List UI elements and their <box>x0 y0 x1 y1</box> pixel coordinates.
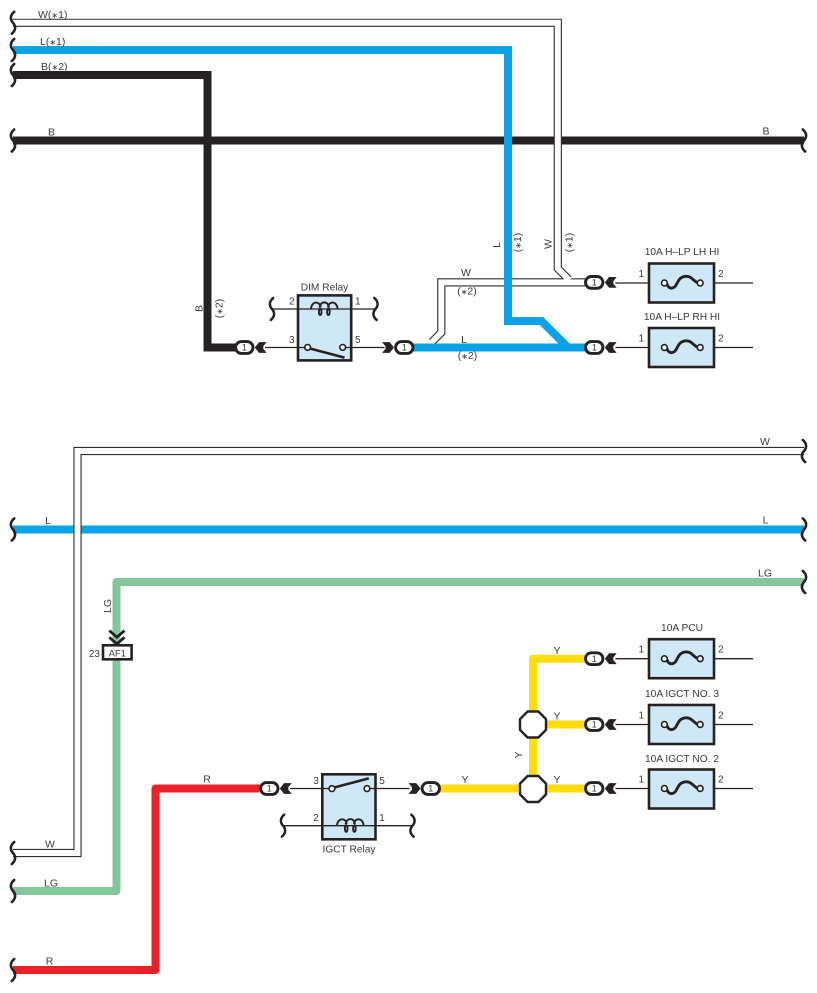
fuse 10A IGCT NO.2 wires <box>616 788 754 790</box>
svg-text:2: 2 <box>718 711 724 722</box>
svg-text:IGCT Relay: IGCT Relay <box>322 845 376 856</box>
IGCT relay switch blade <box>333 778 369 787</box>
svg-text:5: 5 <box>355 335 361 346</box>
svg-text:B(∗2): B(∗2) <box>41 61 68 73</box>
svg-text:R: R <box>46 956 54 968</box>
svg-text:10A IGCT NO. 2: 10A IGCT NO. 2 <box>645 754 719 765</box>
svg-text:LG: LG <box>102 599 114 613</box>
fuse 10A H-LP LH HI wires <box>616 282 754 284</box>
DIM relay switch contact left <box>305 345 311 351</box>
wire W white fill <box>13 451 804 853</box>
connector oval 1 at fuse IGCT NO.2 <box>586 783 603 795</box>
continuation squiggle B left <box>11 130 15 152</box>
wire Y junction J1 to oval <box>544 721 585 729</box>
svg-text:L(∗1): L(∗1) <box>40 36 65 48</box>
IGCT relay coil squiggle right <box>410 815 414 837</box>
continuation squiggle LG right <box>802 571 806 593</box>
fuse 10A PCU box <box>649 639 714 678</box>
fuse 10A H-LP RH HI element <box>667 341 698 353</box>
DIM relay switch wire left <box>265 347 305 349</box>
fuse 10A H-LP LH HI element <box>667 276 698 288</box>
wire B ground bus <box>13 137 804 145</box>
fuse 10A IGCT NO.3 element <box>667 718 698 730</box>
arrow at DIM pin 3 oval <box>255 342 267 353</box>
wire L(*2) <box>413 344 585 352</box>
svg-text:B: B <box>762 126 769 138</box>
svg-text:L: L <box>763 515 769 527</box>
svg-text:W: W <box>760 436 770 448</box>
svg-text:W: W <box>461 267 471 279</box>
svg-text:2: 2 <box>718 645 724 656</box>
fuse 10A H-LP LH HI box <box>649 264 714 303</box>
DIM relay coil squiggle right <box>373 298 377 320</box>
IGCT relay switch contact left <box>329 786 335 792</box>
continuation squiggle W bottom left <box>11 842 15 864</box>
svg-text:LG: LG <box>44 878 58 890</box>
svg-text:L: L <box>461 334 467 346</box>
wire Y relay to junction J2 <box>441 785 523 793</box>
wire Y junction J2 to oval <box>544 785 585 793</box>
SECTION TOP <box>11 9 806 367</box>
wire L(*1) <box>13 50 568 348</box>
svg-text:(∗1): (∗1) <box>512 233 524 253</box>
arrow at fuse PCU oval <box>605 653 617 664</box>
wire W black outline <box>13 451 804 853</box>
DIM relay coil squiggle left <box>270 298 274 320</box>
fuse 10A IGCT NO.3 wires <box>616 724 754 726</box>
wire Y junction J1 up to fuse PCU <box>533 659 585 715</box>
svg-text:1: 1 <box>402 343 407 353</box>
wire W(*2) white fill <box>431 282 585 343</box>
continuation squiggle W right <box>802 440 806 462</box>
wire R <box>13 789 260 971</box>
svg-text:1: 1 <box>592 720 597 730</box>
svg-text:LG: LG <box>758 568 772 580</box>
svg-text:AF1: AF1 <box>109 648 126 659</box>
continuation squiggle B right <box>802 130 806 152</box>
svg-text:DIM Relay: DIM Relay <box>301 283 349 294</box>
svg-text:1: 1 <box>592 278 597 288</box>
svg-text:2: 2 <box>289 297 295 308</box>
arrow at IGCT pin 5 oval <box>409 783 421 794</box>
wire LG <box>13 582 804 891</box>
svg-text:1: 1 <box>379 813 385 824</box>
fuse 10A PCU wires <box>616 658 754 660</box>
DIM relay switch wire right <box>345 347 385 349</box>
IGCT relay coil <box>337 819 364 826</box>
wire B(*2) <box>13 75 236 348</box>
svg-text:B: B <box>194 305 206 312</box>
svg-text:B: B <box>48 126 55 138</box>
svg-text:1: 1 <box>592 784 597 794</box>
DIM relay coil wire <box>272 308 376 310</box>
svg-text:(∗2): (∗2) <box>214 299 226 319</box>
continuation squiggle W(*1) left <box>11 12 15 34</box>
fuse 10A H-LP RH HI box <box>649 328 714 367</box>
fuse 10A H-LP RH HI wires <box>616 347 754 349</box>
svg-text:1: 1 <box>638 775 644 786</box>
svg-text:10A PCU: 10A PCU <box>661 623 703 634</box>
svg-text:L: L <box>45 515 51 527</box>
svg-text:W: W <box>45 839 55 851</box>
svg-text:3: 3 <box>313 776 319 787</box>
svg-text:Y: Y <box>553 711 560 723</box>
svg-text:10A H–LP LH HI: 10A H–LP LH HI <box>645 247 720 258</box>
DIM relay switch blade <box>309 348 345 357</box>
connector oval 1 at fuse H-LP LH HI <box>586 277 603 289</box>
svg-text:5: 5 <box>379 776 385 787</box>
svg-text:1: 1 <box>638 269 644 280</box>
connector AF1 box <box>103 645 132 659</box>
connector oval 1 at fuse PCU <box>586 653 603 665</box>
svg-text:(∗1): (∗1) <box>564 233 576 253</box>
IGCT relay box <box>322 774 375 839</box>
DIM relay box <box>298 295 351 360</box>
IGCT relay switch contact right <box>364 786 370 792</box>
svg-text:Y: Y <box>553 645 560 657</box>
junction octagon J1 <box>520 712 546 738</box>
connector AF1 chevrons <box>109 631 124 644</box>
IGCT relay switch wire left <box>290 788 330 790</box>
svg-text:Y: Y <box>553 774 560 786</box>
arrow at fuse H-LP RH HI oval <box>605 342 617 353</box>
wire L bus <box>13 526 804 534</box>
svg-text:1: 1 <box>242 343 247 353</box>
svg-text:1: 1 <box>592 654 597 664</box>
DIM relay coil <box>311 302 338 309</box>
arrow at DIM pin 5 oval <box>382 342 394 353</box>
wire Y between junctions <box>529 734 537 779</box>
svg-text:R: R <box>203 774 211 786</box>
connector oval 1 at fuse H-LP RH HI <box>586 342 603 354</box>
svg-text:1: 1 <box>355 297 361 308</box>
svg-text:3: 3 <box>289 335 295 346</box>
continuation squiggle R left <box>11 959 15 981</box>
connector oval 1 at IGCT pin 5 <box>422 783 439 795</box>
svg-text:23: 23 <box>89 649 101 660</box>
svg-text:(∗2): (∗2) <box>457 286 477 298</box>
svg-text:1: 1 <box>592 343 597 353</box>
svg-text:2: 2 <box>313 813 319 824</box>
connector oval 1 at DIM pin 3 <box>236 342 253 354</box>
junction octagon J2 <box>520 776 546 802</box>
arrow at IGCT pin 3 oval <box>280 783 292 794</box>
svg-text:Y: Y <box>461 774 468 786</box>
DIM relay switch contact right <box>340 345 346 351</box>
svg-text:2: 2 <box>718 775 724 786</box>
arrow at fuse H-LP LH HI oval <box>605 277 617 288</box>
fuse 10A IGCT NO.2 element <box>667 782 698 794</box>
continuation squiggle LG left <box>11 880 15 902</box>
continuation squiggle L right <box>802 519 806 541</box>
continuation squiggle L left <box>11 519 15 541</box>
connector oval 1 at DIM pin 5 <box>396 342 413 354</box>
svg-text:2: 2 <box>718 334 724 345</box>
arrow at fuse IGCT NO.3 oval <box>605 719 617 730</box>
arrow at fuse IGCT NO.2 oval <box>605 783 617 794</box>
svg-text:10A IGCT NO. 3: 10A IGCT NO. 3 <box>645 689 719 700</box>
IGCT relay coil squiggle left <box>281 815 285 837</box>
svg-text:W: W <box>543 239 555 249</box>
fuse 10A PCU element <box>667 652 698 664</box>
continuation squiggle L(*1) left <box>11 39 15 61</box>
svg-text:1: 1 <box>638 334 644 345</box>
svg-text:2: 2 <box>718 269 724 280</box>
SECTION BOTTOM <box>11 436 806 981</box>
svg-text:10A H–LP RH HI: 10A H–LP RH HI <box>644 312 720 323</box>
continuation squiggle B(*2) left <box>11 64 15 86</box>
svg-text:1: 1 <box>267 784 272 794</box>
wire W(*1) black outline <box>13 23 569 280</box>
svg-text:1: 1 <box>428 784 433 794</box>
svg-text:L: L <box>491 242 503 248</box>
svg-text:W(∗1): W(∗1) <box>38 9 67 21</box>
connector oval 1 at IGCT pin 3 <box>261 783 278 795</box>
svg-text:Y: Y <box>513 751 525 758</box>
svg-text:(∗2): (∗2) <box>458 350 478 362</box>
fuse 10A IGCT NO.2 box <box>649 770 714 809</box>
IGCT relay switch wire right <box>370 788 410 790</box>
fuse 10A IGCT NO.3 box <box>649 705 714 744</box>
svg-text:1: 1 <box>638 645 644 656</box>
connector oval 1 at fuse IGCT NO.3 <box>586 719 603 731</box>
wire W(*2) black outline <box>432 282 585 342</box>
wire W(*1) white fill <box>13 23 570 281</box>
IGCT relay coil wire <box>283 825 413 827</box>
svg-text:1: 1 <box>638 711 644 722</box>
